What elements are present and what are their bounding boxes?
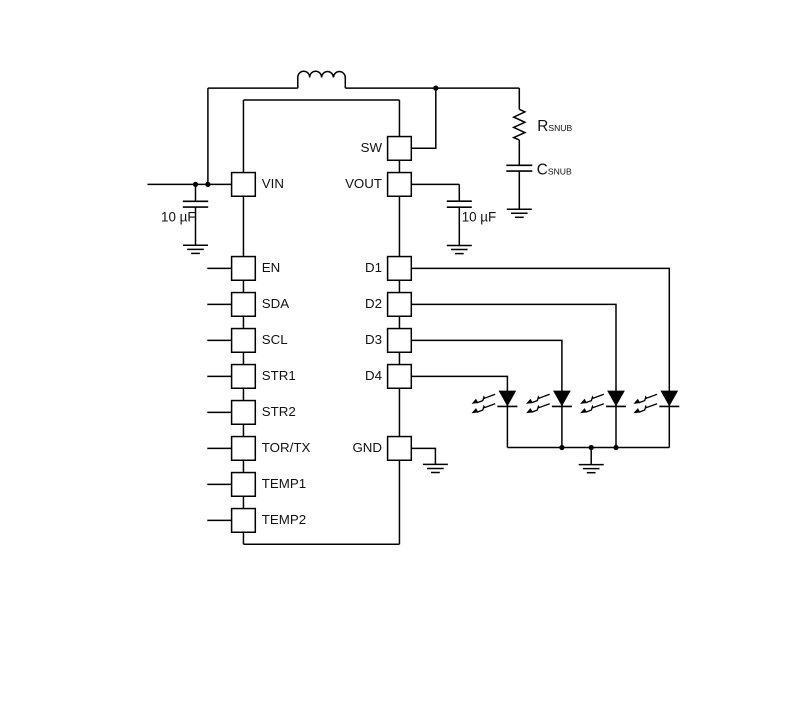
wire TEMP2 pin stub xyxy=(207,519,231,521)
capacitor CSNUB xyxy=(506,165,532,171)
wire D1 to LED1 xyxy=(411,268,669,447)
junction dot input rail / riser xyxy=(205,182,210,187)
ground below output cap xyxy=(447,246,472,254)
pin SW xyxy=(388,137,412,161)
svg-text:VIN: VIN xyxy=(262,176,284,191)
svg-text:GND: GND xyxy=(352,440,382,455)
junction dot rail ground xyxy=(589,445,594,450)
wire D3 to LED3 xyxy=(411,340,562,447)
wire LED cathode rail xyxy=(507,447,669,449)
pin D1 xyxy=(388,257,412,281)
svg-text:D3: D3 xyxy=(365,332,382,347)
svg-text:STR2: STR2 xyxy=(262,404,296,419)
junction dot rail LED2 xyxy=(613,445,618,450)
svg-text:RSNUB: RSNUB xyxy=(537,118,572,135)
ground below CSNUB xyxy=(507,209,532,217)
pin VOUT xyxy=(388,173,412,197)
wire TOR/TX pin stub xyxy=(207,447,231,449)
ground at GND pin xyxy=(423,464,448,472)
LED for D3 channel xyxy=(526,391,572,413)
svg-text:SW: SW xyxy=(361,140,383,155)
wire RSNUB drop xyxy=(518,88,520,109)
pin GND xyxy=(388,437,412,461)
pin SDA xyxy=(232,293,256,317)
svg-text:EN: EN xyxy=(262,260,280,275)
pin TOR/TX xyxy=(232,437,256,461)
ground below LED rail xyxy=(579,465,604,473)
wire top from riser to inductor xyxy=(208,87,298,89)
wire riser from input rail to inductor xyxy=(207,88,209,184)
svg-text:TEMP2: TEMP2 xyxy=(262,512,306,527)
IC body outline xyxy=(243,100,399,544)
junction dot SW node xyxy=(433,86,438,91)
svg-text:TOR/TX: TOR/TX xyxy=(262,440,311,455)
svg-text:D1: D1 xyxy=(365,260,382,275)
wire VIN input rail xyxy=(148,183,232,185)
wire EN pin stub xyxy=(207,267,231,269)
pin VIN xyxy=(232,173,256,197)
pin STR1 xyxy=(232,365,256,389)
wire SW pin stub to riser xyxy=(411,88,436,148)
svg-text:D2: D2 xyxy=(365,296,382,311)
pin TEMP2 xyxy=(232,509,256,533)
capacitor output 10uF xyxy=(447,201,472,207)
pin STR2 xyxy=(232,401,256,425)
pin EN xyxy=(232,257,256,281)
wire TEMP1 pin stub xyxy=(207,483,231,485)
LED for D1 channel xyxy=(633,391,679,413)
resistor RSNUB xyxy=(514,109,525,140)
wire output cap to ground xyxy=(458,207,460,245)
inductor L1 xyxy=(298,71,346,88)
junction dot input rail / bypass cap xyxy=(193,182,198,187)
pin TEMP1 xyxy=(232,473,256,497)
svg-text:10 µF: 10 µF xyxy=(462,209,497,224)
wire CSNUB to ground xyxy=(518,171,520,209)
svg-text:SDA: SDA xyxy=(262,296,289,311)
svg-text:TEMP1: TEMP1 xyxy=(262,476,306,491)
LED for D4 channel xyxy=(472,391,518,413)
wire rail ground stub xyxy=(590,448,592,465)
pin D4 xyxy=(388,365,412,389)
svg-text:SCL: SCL xyxy=(262,332,288,347)
wire SDA pin stub xyxy=(207,303,231,305)
wire GND pin stub xyxy=(411,448,435,464)
wire VOUT stub xyxy=(411,183,459,185)
svg-text:10 µF: 10 µF xyxy=(161,210,196,225)
wire SCL pin stub xyxy=(207,339,231,341)
wire input cap drop xyxy=(195,184,197,201)
pin D3 xyxy=(388,329,412,353)
wire STR2 pin stub xyxy=(207,411,231,413)
wire VOUT cap drop xyxy=(458,184,460,201)
wire RSNUB to CSNUB xyxy=(518,140,520,165)
junction dot rail LED3 xyxy=(559,445,564,450)
svg-text:STR1: STR1 xyxy=(262,368,296,383)
svg-text:D4: D4 xyxy=(365,368,382,383)
svg-text:VOUT: VOUT xyxy=(345,176,382,191)
pin D2 xyxy=(388,293,412,317)
wire input cap to ground xyxy=(195,207,197,245)
ground below input cap xyxy=(183,245,208,253)
pin SCL xyxy=(232,329,256,353)
LED for D2 channel xyxy=(580,391,626,413)
wire STR1 pin stub xyxy=(207,375,231,377)
svg-text:CSNUB: CSNUB xyxy=(537,161,572,178)
wire D2 to LED2 xyxy=(411,304,616,447)
wire top from inductor to RSNUB corner xyxy=(345,87,519,89)
wire D4 to LED4 xyxy=(411,376,507,447)
capacitor input 10uF xyxy=(183,201,208,207)
